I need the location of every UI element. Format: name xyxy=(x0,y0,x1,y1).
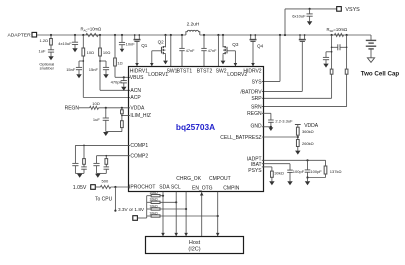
svg-text:COMP1: COMP1 xyxy=(130,143,148,149)
svg-text:SRP: SRP xyxy=(251,96,262,102)
svg-text:10kΩ: 10kΩ xyxy=(149,204,158,208)
svg-text:BTST1: BTST1 xyxy=(177,69,193,75)
svg-text:HIDRV2: HIDRV2 xyxy=(243,69,261,75)
svg-text:2.2uH: 2.2uH xyxy=(187,21,200,27)
svg-text:LODRV1: LODRV1 xyxy=(148,72,168,78)
svg-text:REGN: REGN xyxy=(247,111,262,117)
svg-text:10Ω: 10Ω xyxy=(92,101,99,106)
svg-text:500: 500 xyxy=(102,179,109,184)
svg-text:SCL: SCL xyxy=(171,185,181,191)
svg-text:ACP: ACP xyxy=(130,95,141,101)
svg-text:1uF: 1uF xyxy=(39,49,46,54)
svg-text:CMPIN: CMPIN xyxy=(223,185,240,191)
svg-text:10kΩ: 10kΩ xyxy=(149,211,158,215)
svg-text:VDDA: VDDA xyxy=(130,106,145,112)
svg-text:IBAT: IBAT xyxy=(251,162,262,168)
svg-text:VSYS: VSYS xyxy=(345,7,360,13)
svg-text:SW2: SW2 xyxy=(216,69,227,75)
svg-text:RSR=10mΩ: RSR=10mΩ xyxy=(327,27,348,33)
svg-text:10nF: 10nF xyxy=(126,42,136,47)
svg-text:260kΩ: 260kΩ xyxy=(302,141,314,146)
svg-text:CMPOUT: CMPOUT xyxy=(209,176,231,182)
svg-text:Host: Host xyxy=(189,240,201,246)
svg-text:SDA: SDA xyxy=(159,185,170,191)
svg-text:SYS: SYS xyxy=(252,79,263,85)
svg-text:1uF: 1uF xyxy=(93,117,100,122)
svg-text:15nF: 15nF xyxy=(89,67,99,72)
svg-text:10Ω: 10Ω xyxy=(87,50,94,55)
svg-text:1Ω: 1Ω xyxy=(117,60,122,65)
svg-text:6x10uF: 6x10uF xyxy=(292,13,306,18)
svg-text:REGN: REGN xyxy=(65,106,80,112)
svg-text:VDDA: VDDA xyxy=(304,123,319,129)
svg-text:GND: GND xyxy=(250,123,262,129)
svg-text:15nF: 15nF xyxy=(66,67,76,72)
svg-text:To CPU: To CPU xyxy=(95,197,113,203)
svg-text:47nF: 47nF xyxy=(208,49,217,53)
svg-text:HIDRV1: HIDRV1 xyxy=(130,69,148,75)
svg-text:Q3: Q3 xyxy=(232,42,239,47)
svg-text:10kΩ: 10kΩ xyxy=(149,198,158,202)
svg-text:100pF: 100pF xyxy=(310,169,322,174)
svg-text:1.2Ω: 1.2Ω xyxy=(40,38,49,43)
svg-text:PSYS: PSYS xyxy=(248,168,262,174)
svg-text:137kΩ: 137kΩ xyxy=(330,169,342,174)
svg-text:Two Cell Cap: Two Cell Cap xyxy=(361,70,400,77)
svg-text:ADAPTER: ADAPTER xyxy=(8,33,32,39)
svg-text:EN_OTG: EN_OTG xyxy=(192,185,213,191)
svg-text:BTST2: BTST2 xyxy=(197,69,213,75)
svg-text:1.05V: 1.05V xyxy=(73,185,87,191)
svg-text:30kΩ: 30kΩ xyxy=(274,171,283,176)
svg-text:Q1: Q1 xyxy=(141,43,148,48)
svg-text:3.3V or 1.8V: 3.3V or 1.8V xyxy=(118,207,145,212)
svg-text:COMP2: COMP2 xyxy=(130,153,148,159)
svg-text:47nF: 47nF xyxy=(186,49,195,53)
svg-text:10Ω: 10Ω xyxy=(103,50,110,55)
svg-text:100pF: 100pF xyxy=(293,169,305,174)
svg-text:/BATDRV: /BATDRV xyxy=(240,89,262,95)
svg-text:Q2: Q2 xyxy=(158,39,165,44)
svg-text:ACN: ACN xyxy=(130,88,141,94)
svg-text:VBUS: VBUS xyxy=(130,75,144,81)
svg-text:ILIM_HIZ: ILIM_HIZ xyxy=(130,113,151,119)
svg-text:CELL_BATPRESZ: CELL_BATPRESZ xyxy=(220,135,261,141)
svg-text:360kΩ: 360kΩ xyxy=(302,129,314,134)
svg-text:10kΩ: 10kΩ xyxy=(149,191,158,195)
svg-text:CHRG_OK: CHRG_OK xyxy=(176,176,201,182)
svg-text:snubber: snubber xyxy=(40,66,55,71)
svg-text:Q4: Q4 xyxy=(257,44,264,49)
svg-text:4x10uF: 4x10uF xyxy=(58,41,72,46)
svg-text:IPROCHOT: IPROCHOT xyxy=(129,185,155,191)
svg-text:470pF: 470pF xyxy=(111,80,123,85)
svg-text:2.2-3.3uF: 2.2-3.3uF xyxy=(275,118,293,123)
svg-text:(I2C): (I2C) xyxy=(188,246,200,252)
svg-text:bq25703A: bq25703A xyxy=(176,122,215,132)
svg-text:RAC=10mΩ: RAC=10mΩ xyxy=(81,27,102,33)
svg-text:SRN: SRN xyxy=(251,105,262,111)
